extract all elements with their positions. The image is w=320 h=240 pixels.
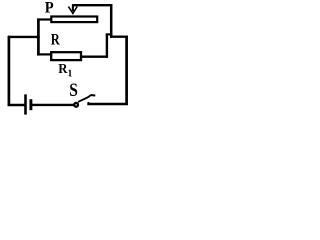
svg-text:R: R xyxy=(58,61,67,76)
battery long plate xyxy=(24,94,27,114)
resistor R body xyxy=(51,52,81,60)
wire: bottom middle segment xyxy=(31,104,75,106)
svg-text:1: 1 xyxy=(67,68,72,78)
svg-text:P: P xyxy=(45,0,54,16)
wire: wiper top horizontal xyxy=(72,4,112,6)
wire: left connector horizontal xyxy=(8,36,40,38)
battery short plate xyxy=(29,99,32,110)
wire: inner left vertical xyxy=(37,18,40,55)
wire: bottom left segment xyxy=(8,104,26,107)
svg-text:R: R xyxy=(51,30,60,48)
wire: bottom right segment xyxy=(87,103,127,105)
wire: upper right vertical xyxy=(110,4,113,38)
switch lever xyxy=(78,95,91,102)
background xyxy=(0,0,133,118)
potentiometer P body xyxy=(51,17,97,23)
wire: outer left vertical xyxy=(8,36,11,106)
wiper stem xyxy=(72,5,74,12)
switch fixed contact nub xyxy=(87,102,89,105)
wire: junction tick to main vertical xyxy=(106,33,113,35)
wire: outer right vertical xyxy=(125,36,128,106)
switch pivot circle xyxy=(74,103,78,107)
wire: pot left lead xyxy=(37,18,51,20)
wiper arrowhead xyxy=(68,7,77,14)
svg-text:S: S xyxy=(69,80,78,101)
switch lever tip dash xyxy=(91,94,95,97)
wire: right jog horizontal xyxy=(110,36,128,38)
wire: R right vertical riser xyxy=(106,33,108,57)
wire: R left lead xyxy=(37,53,51,55)
wire: R right lead xyxy=(81,56,108,58)
